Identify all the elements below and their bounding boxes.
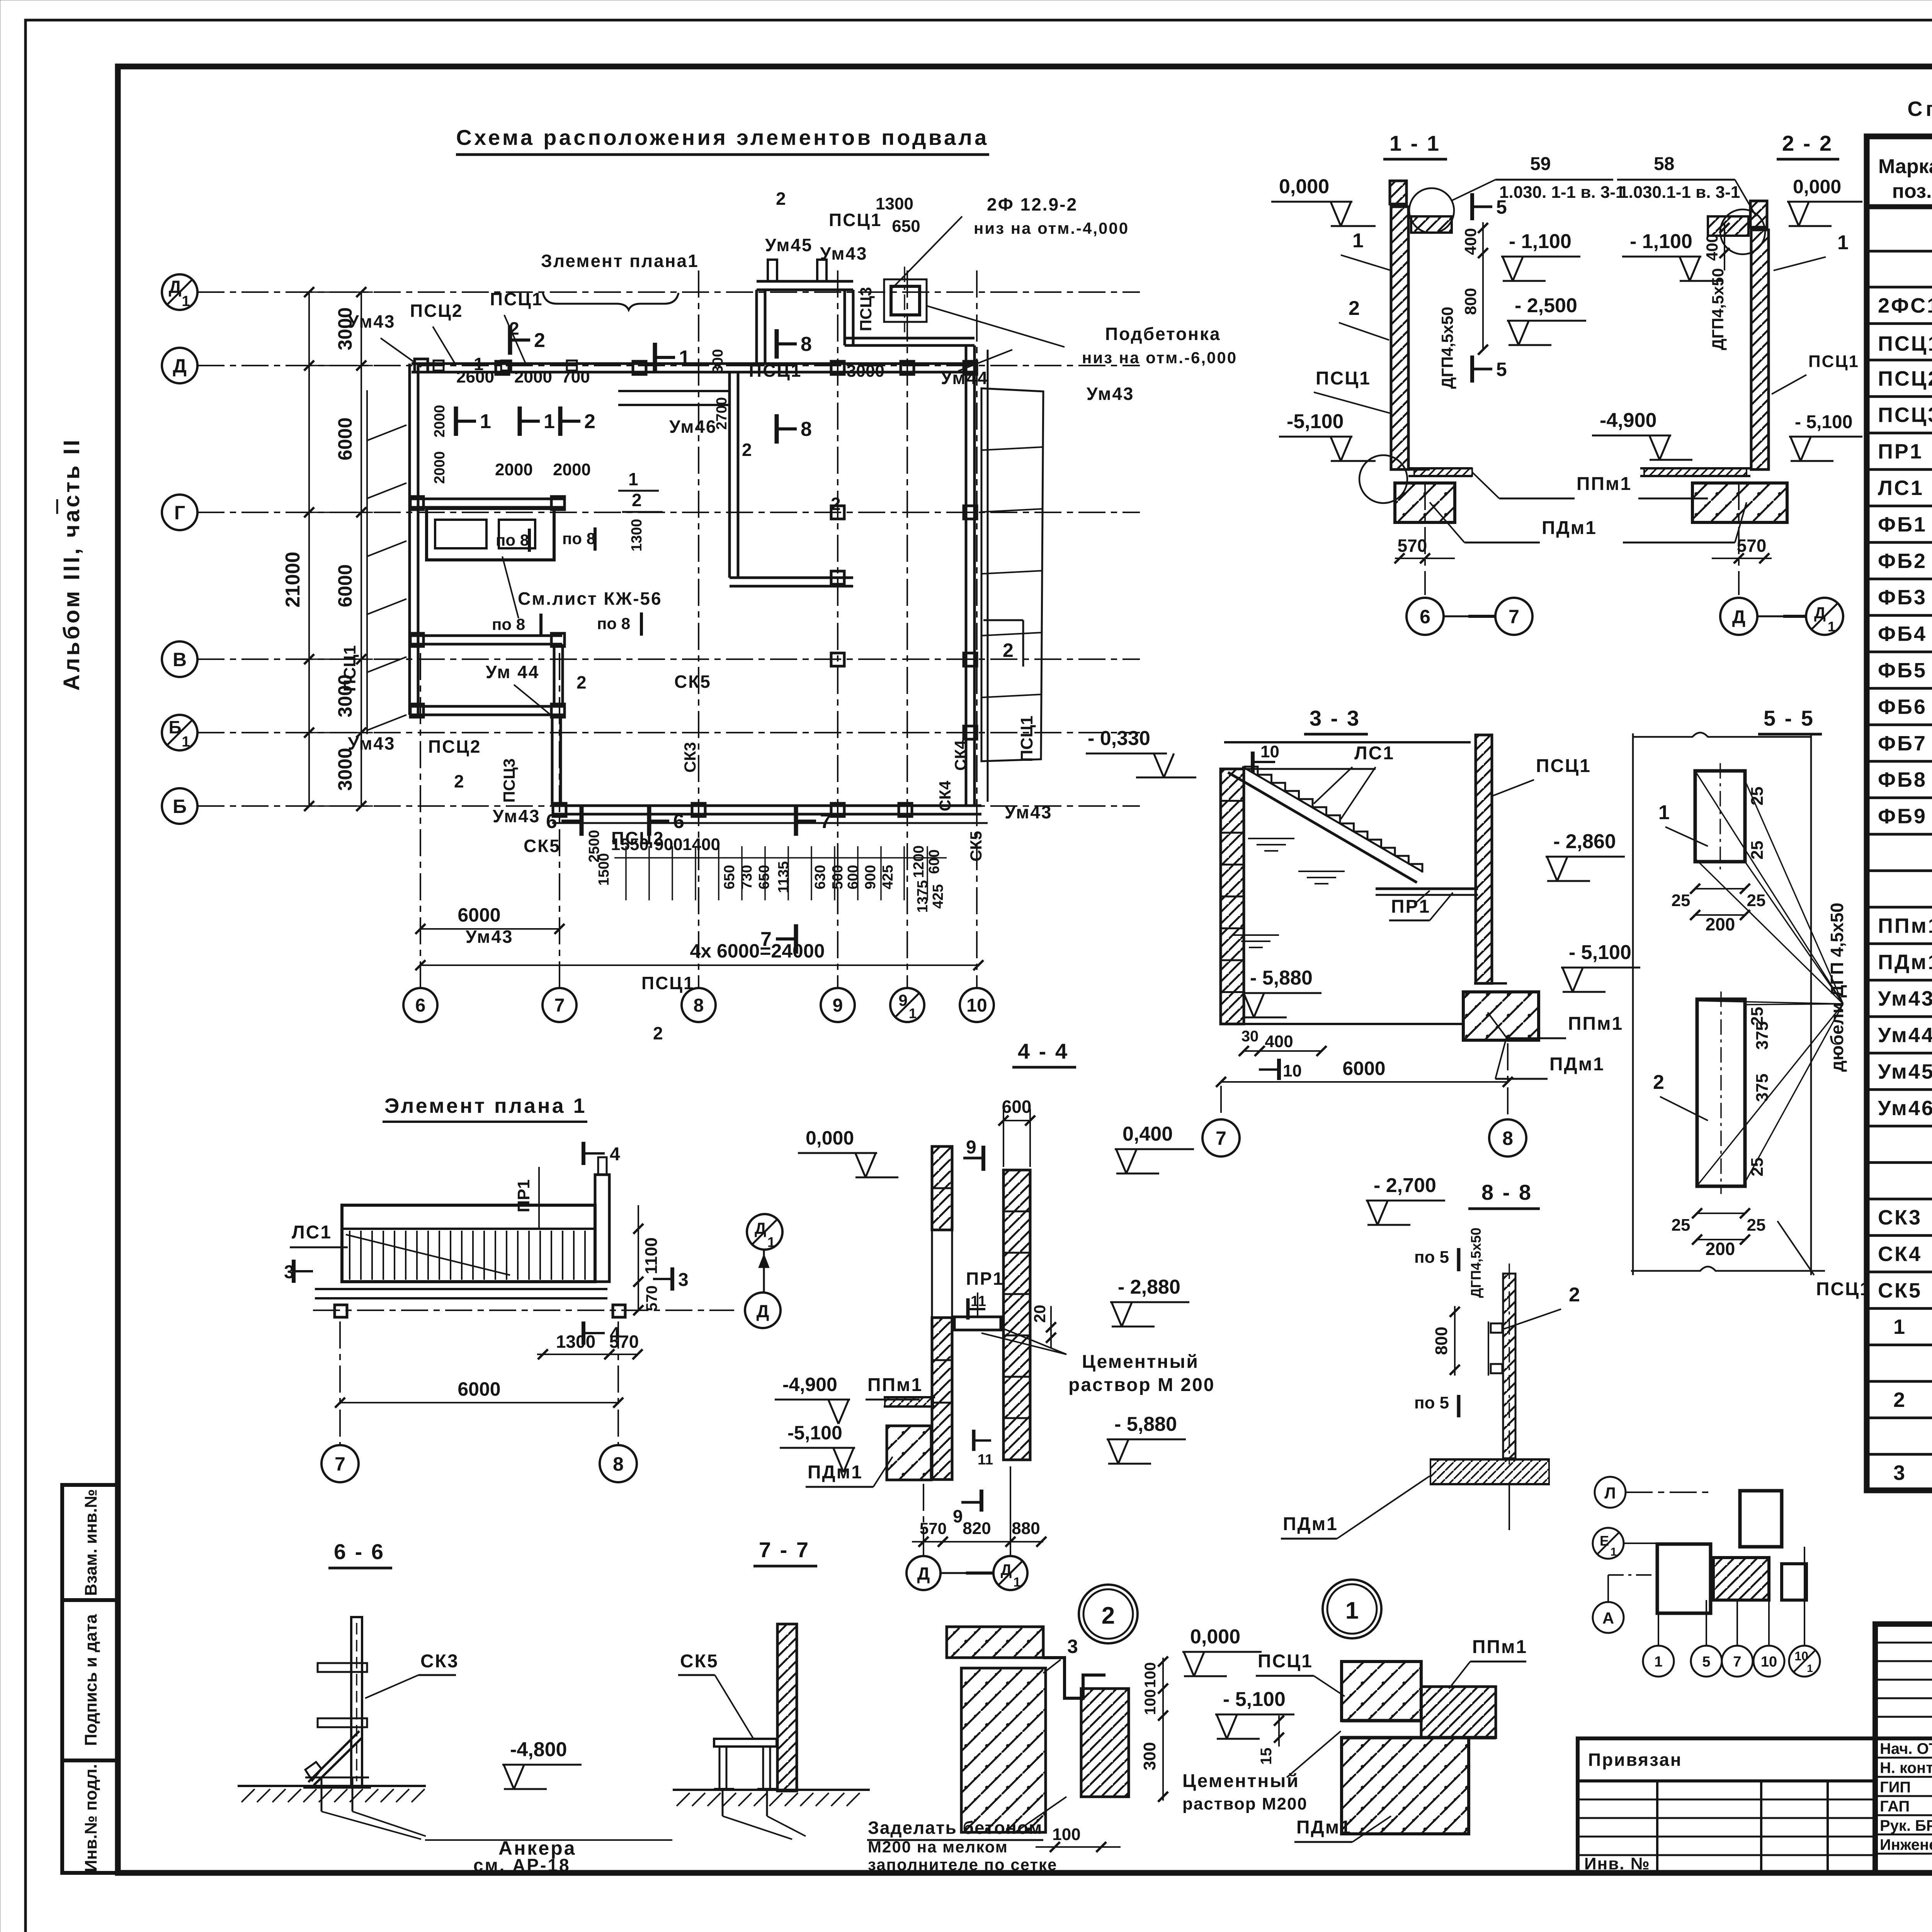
svg-text:ПСЦ1: ПСЦ1 [340, 645, 359, 692]
svg-text:425: 425 [930, 884, 946, 908]
svg-text:-4,900: -4,900 [782, 1374, 837, 1395]
svg-text:2: 2 [776, 189, 786, 209]
svg-text:375: 375 [1753, 1073, 1772, 1102]
svg-text:СК3: СК3 [681, 742, 699, 772]
dim line bottom cluster [614, 857, 947, 859]
svg-text:Д: Д [1001, 1561, 1012, 1578]
svg-text:200: 200 [1706, 914, 1735, 934]
svg-text:7: 7 [760, 928, 772, 951]
svg-text:- 1,100: - 1,100 [1630, 230, 1692, 253]
svg-text:ФБ3: ФБ3 [1878, 586, 1927, 609]
small wall squares top-left [434, 361, 444, 371]
svg-text:0,000: 0,000 [1279, 175, 1329, 198]
svg-text:ПСЦ1: ПСЦ1 [1878, 332, 1932, 355]
svg-text:7: 7 [335, 1453, 345, 1475]
3-3 right wall [1476, 735, 1492, 983]
key plan leaders [1626, 1492, 1712, 1493]
8-8 bottom slab [1430, 1458, 1550, 1461]
4-4 marks 9 [981, 1146, 985, 1171]
svg-text:ПР1: ПР1 [514, 1179, 533, 1212]
svg-text:600: 600 [1002, 1097, 1032, 1117]
svg-text:600: 600 [926, 849, 942, 874]
svg-text:СК4: СК4 [1878, 1242, 1922, 1265]
svg-text:-4,800: -4,800 [510, 1738, 567, 1761]
svg-text:59: 59 [1530, 154, 1551, 174]
svg-text:6: 6 [546, 810, 557, 833]
svg-text:ПСЦ1: ПСЦ1 [490, 289, 543, 309]
1-1 bottom axis circles [1424, 483, 1426, 595]
svg-text:по 5: по 5 [1414, 1393, 1449, 1412]
svg-text:3: 3 [284, 1262, 294, 1282]
svg-text:ПР1: ПР1 [1878, 440, 1923, 463]
svg-text:1: 1 [1893, 1315, 1905, 1338]
element plana axis circles right [747, 1214, 782, 1250]
svg-text:100: 100 [1052, 1825, 1080, 1844]
svg-text:по 8: по 8 [492, 615, 525, 633]
2-2 foundation [1692, 483, 1787, 522]
svg-text:Д: Д [755, 1219, 766, 1237]
svg-text:ФБ8: ФБ8 [1878, 768, 1927, 791]
svg-text:см. АР-18: см. АР-18 [473, 1855, 571, 1875]
svg-text:3000: 3000 [334, 748, 356, 791]
svg-text:1300: 1300 [556, 1332, 595, 1352]
svg-text:1375: 1375 [915, 880, 931, 913]
svg-text:1.030. 1-1 в. 3-1: 1.030. 1-1 в. 3-1 [1499, 183, 1625, 202]
svg-text:ПР1: ПР1 [966, 1269, 1004, 1289]
svg-text:Б: Б [168, 717, 181, 737]
top wall inner band [618, 390, 730, 392]
svg-text:Ум 44: Ум 44 [486, 662, 539, 682]
svg-text:425: 425 [880, 865, 896, 889]
svg-text:1.030.1-1 в. 3-1: 1.030.1-1 в. 3-1 [1619, 183, 1740, 202]
svg-text:8: 8 [801, 418, 812, 440]
svg-text:Подбетонка: Подбетонка [1105, 324, 1221, 344]
svg-text:ФБ4: ФБ4 [1878, 622, 1927, 646]
svg-text:6000: 6000 [457, 1378, 500, 1400]
svg-text:1: 1 [1611, 1546, 1617, 1558]
svg-text:М200 на мелком: М200 на мелком [868, 1838, 1008, 1856]
svg-text:ПСЦ3: ПСЦ3 [1878, 403, 1932, 427]
svg-text:2: 2 [1653, 1071, 1664, 1094]
svg-text:10: 10 [1283, 1061, 1302, 1080]
4-4 right wall strip [1003, 1170, 1030, 1460]
svg-text:1135: 1135 [776, 861, 792, 893]
svg-text:11: 11 [971, 1293, 986, 1310]
svg-text:Ум43: Ум43 [466, 927, 514, 947]
svg-text:2000: 2000 [432, 405, 448, 438]
bottom dimension lines [420, 928, 560, 930]
svg-text:6: 6 [415, 995, 426, 1016]
plan axis circles left [162, 274, 197, 310]
svg-text:Нач. ОТП: Нач. ОТП [1880, 1740, 1932, 1757]
svg-text:Инв.№ подл.: Инв.№ подл. [82, 1764, 100, 1872]
3-3 water marks [1248, 838, 1294, 839]
svg-text:ДГП4,5х50: ДГП4,5х50 [1438, 307, 1456, 389]
top-left leaders [381, 338, 421, 367]
svg-text:10: 10 [966, 995, 987, 1016]
svg-text:ГАП: ГАП [1880, 1798, 1910, 1815]
svg-text:ФБ2: ФБ2 [1878, 549, 1927, 573]
svg-text:880: 880 [1012, 1519, 1040, 1538]
svg-text:3: 3 [1893, 1461, 1905, 1485]
plan vertical axis lines [420, 653, 421, 988]
6-6 brackets [318, 1663, 367, 1672]
svg-text:2: 2 [534, 329, 545, 352]
svg-text:Цементный: Цементный [1182, 1771, 1299, 1791]
svg-text:1: 1 [679, 347, 690, 369]
svg-text:300: 300 [1140, 1742, 1159, 1770]
detail 1 lower block [1342, 1738, 1469, 1834]
4-4 floor slab left [884, 1396, 935, 1398]
svg-text:ФБ7: ФБ7 [1878, 732, 1927, 755]
svg-text:ДГП4,5х50: ДГП4,5х50 [1468, 1228, 1484, 1298]
svg-text:1: 1 [767, 1234, 775, 1250]
svg-text:30: 30 [1242, 1028, 1259, 1045]
svg-text:2: 2 [653, 1023, 663, 1043]
detail 2 circle [1079, 1585, 1138, 1643]
svg-text:ПР1: ПР1 [1391, 896, 1430, 917]
svg-text:6: 6 [1420, 606, 1430, 628]
element plana circles [339, 1321, 341, 1445]
svg-text:2ФС13: 2ФС13 [1878, 294, 1932, 317]
svg-text:7: 7 [1733, 1654, 1741, 1670]
2-2 floor slab [1640, 467, 1750, 469]
svg-text:- 1,100: - 1,100 [1509, 230, 1571, 253]
svg-text:ПСЦ1: ПСЦ1 [1816, 1279, 1871, 1299]
svg-text:570: 570 [1737, 536, 1767, 556]
svg-text:2: 2 [584, 410, 595, 433]
spec table grid [1867, 136, 1932, 1490]
svg-text:ГИП: ГИП [1880, 1779, 1911, 1796]
svg-text:1: 1 [1658, 801, 1670, 824]
svg-text:8: 8 [1502, 1128, 1513, 1149]
8-8 wall [1503, 1274, 1515, 1458]
svg-text:Ум43: Ум43 [1087, 384, 1134, 404]
svg-text:11: 11 [978, 1452, 993, 1468]
detail 2 upper band [947, 1627, 1043, 1658]
svg-text:2: 2 [1003, 639, 1014, 661]
svg-text:3 - 3: 3 - 3 [1310, 706, 1361, 730]
svg-text:Заделать бетоном: Заделать бетоном [868, 1818, 1043, 1838]
svg-text:2000: 2000 [432, 451, 448, 484]
svg-text:по 8: по 8 [597, 614, 630, 633]
svg-text:1: 1 [1837, 231, 1849, 254]
key plan bottom circles [1643, 1646, 1674, 1677]
svg-text:1: 1 [182, 293, 190, 310]
svg-text:ФБ9: ФБ9 [1878, 805, 1927, 828]
svg-text:ПСЦ3: ПСЦ3 [857, 287, 875, 332]
svg-text:6000: 6000 [334, 417, 356, 460]
svg-text:800: 800 [1461, 288, 1480, 315]
svg-text:7: 7 [1509, 606, 1519, 628]
1-1 section mark 5 [1470, 193, 1474, 220]
5-5 lower panel [1697, 999, 1745, 1186]
svg-text:ПСЦ1: ПСЦ1 [1017, 716, 1036, 762]
svg-text:Е: Е [1600, 1533, 1609, 1549]
svg-text:поз.: поз. [1892, 180, 1932, 202]
svg-text:См.лист КЖ-56: См.лист КЖ-56 [518, 588, 662, 609]
svg-text:6: 6 [673, 810, 684, 833]
svg-text:10: 10 [1794, 1649, 1808, 1663]
svg-text:СК3: СК3 [1878, 1206, 1922, 1229]
svg-text:2700: 2700 [714, 397, 730, 430]
5-5 side lines [1632, 733, 1634, 1275]
svg-text:Ум45: Ум45 [765, 235, 813, 255]
leader fan left side (ПСЦ1) [366, 390, 368, 734]
svg-text:900: 900 [654, 835, 682, 854]
column squares [415, 359, 428, 372]
element plana right strip [595, 1175, 609, 1282]
svg-text:СК5: СК5 [680, 1651, 719, 1672]
svg-text:2000: 2000 [495, 460, 533, 479]
svg-text:Г: Г [174, 502, 185, 524]
4-4 dim 600 [1003, 1120, 1030, 1121]
3-3 top line [1224, 741, 1471, 743]
svg-text:1: 1 [1345, 1597, 1359, 1624]
svg-text:- 5,100: - 5,100 [1569, 941, 1631, 964]
svg-text:Ум45: Ум45 [1878, 1060, 1932, 1083]
svg-text:2Ф 12.9-2: 2Ф 12.9-2 [987, 194, 1078, 214]
element plana 1 body [342, 1205, 595, 1282]
svg-text:0,400: 0,400 [1122, 1123, 1173, 1145]
4-4 marks 11 [966, 1298, 970, 1320]
svg-text:7: 7 [1216, 1128, 1226, 1149]
6-6 post [351, 1617, 362, 1787]
1-1 dim 570 [1395, 558, 1455, 559]
svg-text:ПСЦ1: ПСЦ1 [1536, 756, 1591, 776]
1-1 detail circle [1409, 188, 1454, 233]
svg-text:ПДм1: ПДм1 [1296, 1817, 1352, 1838]
svg-text:-5,100: -5,100 [1287, 410, 1344, 433]
svg-text:ПСЦ1: ПСЦ1 [1258, 1651, 1313, 1672]
svg-text:ПСЦ2: ПСЦ2 [428, 736, 481, 757]
svg-text:25: 25 [1748, 1158, 1767, 1177]
svg-text:10: 10 [1761, 1654, 1777, 1670]
svg-text:2: 2 [742, 440, 752, 460]
svg-text:4: 4 [610, 1324, 620, 1344]
svg-text:Ум43: Ум43 [1005, 802, 1053, 822]
svg-text:Взам. инв.№: Взам. инв.№ [82, 1489, 100, 1596]
panel strip right (ПСЦ1 elevation) [981, 388, 1043, 761]
svg-text:100: 100 [1142, 1689, 1159, 1715]
svg-text:2 - 2: 2 - 2 [1782, 131, 1833, 155]
svg-text:25: 25 [1748, 1007, 1767, 1026]
svg-text:ПДм1: ПДм1 [1549, 1054, 1605, 1075]
svg-text:- 2,500: - 2,500 [1515, 294, 1577, 317]
svg-text:9: 9 [966, 1137, 976, 1158]
svg-text:Альбом III, часть II: Альбом III, часть II [59, 437, 84, 690]
7-7 anchors leaders [723, 1816, 792, 1839]
svg-text:2: 2 [1349, 297, 1360, 320]
plan horizontal axis lines [197, 291, 1140, 293]
plan walls [412, 362, 975, 365]
svg-text:200: 200 [1706, 1239, 1735, 1259]
svg-text:25: 25 [1672, 1216, 1690, 1235]
svg-text:Ум46: Ум46 [1878, 1097, 1932, 1120]
svg-text:6000: 6000 [1342, 1058, 1385, 1079]
svg-text:9: 9 [953, 1506, 963, 1526]
svg-text:2000: 2000 [514, 367, 552, 386]
2-2 bottom circles [1738, 483, 1740, 595]
svg-text:0,000: 0,000 [1190, 1626, 1240, 1648]
svg-text:- 2,700: - 2,700 [1374, 1174, 1436, 1197]
svg-text:Д: Д [169, 277, 182, 297]
8-8 bracket [1491, 1323, 1502, 1333]
svg-text:5: 5 [1496, 359, 1507, 380]
svg-text:по 8: по 8 [496, 531, 529, 549]
svg-text:низ на отм.-4,000: низ на отм.-4,000 [974, 219, 1129, 237]
7-7 stand [714, 1739, 777, 1747]
4-4 ПР1 lintel [954, 1317, 1001, 1330]
svg-text:Н. контр.: Н. контр. [1880, 1760, 1932, 1777]
svg-text:Ум46: Ум46 [669, 417, 717, 437]
svg-text:- 5,880: - 5,880 [1114, 1413, 1177, 1435]
svg-text:Подпись и дата: Подпись и дата [82, 1614, 100, 1746]
svg-text:ПСЦ3: ПСЦ3 [500, 759, 518, 803]
key plan rects [1740, 1491, 1782, 1547]
3-3 stair slope [1228, 772, 1417, 883]
left dimension chains [308, 292, 310, 806]
svg-text:СК3: СК3 [420, 1651, 459, 1672]
svg-text:А: А [1602, 1609, 1614, 1627]
svg-text:1400: 1400 [682, 835, 720, 854]
svg-text:Д: Д [757, 1301, 769, 1321]
title block frame [1875, 1624, 1932, 1873]
svg-text:низ на отм.-6,000: низ на отм.-6,000 [1082, 349, 1237, 367]
element plana base [315, 1288, 607, 1290]
svg-text:21000: 21000 [282, 552, 304, 608]
svg-text:400: 400 [1703, 234, 1721, 261]
svg-text:1550: 1550 [611, 835, 649, 854]
svg-text:650: 650 [892, 217, 920, 236]
svg-text:2000: 2000 [553, 460, 591, 479]
svg-text:1500: 1500 [596, 853, 612, 886]
svg-text:5 - 5: 5 - 5 [1764, 706, 1815, 730]
svg-text:раствор М200: раствор М200 [1182, 1794, 1308, 1813]
svg-text:4x 6000=24000: 4x 6000=24000 [690, 940, 825, 962]
svg-text:400: 400 [1461, 228, 1480, 255]
svg-text:900: 900 [862, 865, 879, 889]
svg-text:1 - 1: 1 - 1 [1389, 131, 1440, 155]
svg-text:1300: 1300 [876, 194, 913, 213]
element plana dims [537, 1354, 638, 1355]
svg-text:- 5,100: - 5,100 [1223, 1688, 1286, 1711]
svg-text:СК5: СК5 [1878, 1279, 1922, 1302]
svg-text:раствор М 200: раствор М 200 [1068, 1375, 1215, 1395]
svg-text:Спецификация к схеме распол: Спецификация к схеме расположения элемен… [1907, 97, 1932, 121]
elem plana bracket [543, 293, 679, 310]
detail 2 big block [961, 1668, 1046, 1832]
svg-text:3000: 3000 [847, 362, 884, 381]
svg-text:1200: 1200 [911, 845, 927, 878]
svg-text:Схема расположения элементо: Схема расположения элементов подвала [456, 125, 989, 150]
svg-text:1: 1 [1807, 1662, 1813, 1674]
svg-text:ПСЦ1: ПСЦ1 [749, 361, 802, 381]
svg-text:820: 820 [963, 1519, 991, 1538]
svg-text:6000: 6000 [457, 904, 500, 926]
svg-text:2: 2 [1569, 1284, 1580, 1306]
svg-text:СК5: СК5 [524, 836, 561, 856]
svg-text:2: 2 [1893, 1388, 1905, 1412]
1-1 foundation [1395, 483, 1455, 522]
svg-text:25: 25 [1747, 1216, 1766, 1235]
svg-text:2: 2 [831, 494, 841, 514]
detail 1 circle [1323, 1580, 1381, 1638]
svg-text:3: 3 [1067, 1636, 1078, 1657]
svg-text:Злемент плана1: Злемент плана1 [541, 251, 699, 271]
svg-text:2: 2 [1102, 1602, 1115, 1629]
svg-text:700: 700 [561, 367, 590, 386]
svg-text:Д: Д [917, 1563, 930, 1583]
svg-text:7: 7 [820, 810, 831, 833]
6-6 brace [308, 1731, 359, 1782]
svg-text:1300: 1300 [629, 519, 645, 552]
5-5 upper panel [1695, 771, 1745, 862]
interior walls [728, 372, 731, 578]
svg-text:7: 7 [554, 995, 565, 1016]
svg-text:ПСЦ1: ПСЦ1 [1316, 368, 1371, 389]
svg-text:ППм1: ППм1 [1577, 474, 1632, 494]
svg-text:Ум44: Ум44 [1878, 1024, 1932, 1047]
svg-text:7 - 7: 7 - 7 [759, 1537, 810, 1562]
svg-text:Ум44: Ум44 [941, 368, 989, 388]
svg-text:Д: Д [1814, 604, 1826, 622]
svg-text:ЛС1: ЛС1 [292, 1222, 332, 1243]
svg-text:СК5: СК5 [967, 831, 985, 861]
svg-text:заполнителе по сетке: заполнителе по сетке [868, 1855, 1057, 1874]
svg-text:ДГП4,5х50: ДГП4,5х50 [1709, 268, 1727, 350]
svg-text:800: 800 [1432, 1327, 1451, 1355]
svg-text:1100: 1100 [642, 1237, 661, 1274]
svg-text:1: 1 [628, 469, 638, 489]
detail 2 dims [1162, 1658, 1164, 1801]
svg-text:ФБ5: ФБ5 [1878, 659, 1927, 682]
svg-text:Ум43: Ум43 [820, 243, 868, 264]
svg-text:ФБ6: ФБ6 [1878, 695, 1927, 718]
svg-text:по 5: по 5 [1414, 1248, 1449, 1267]
svg-text:-5,100: -5,100 [787, 1422, 842, 1444]
svg-text:ФБ1: ФБ1 [1878, 513, 1927, 536]
key plan circles [1595, 1477, 1626, 1508]
svg-text:- 0,330: - 0,330 [1088, 727, 1150, 750]
3-3 bottom circles [1220, 1086, 1222, 1119]
svg-text:1: 1 [1352, 230, 1364, 252]
svg-text:Ум43: Ум43 [493, 806, 541, 826]
svg-text:4: 4 [610, 1144, 620, 1165]
svg-text:ППм1: ППм1 [1878, 914, 1932, 937]
svg-text:Элемент плана 1: Элемент плана 1 [384, 1094, 587, 1117]
svg-text:3: 3 [678, 1270, 689, 1290]
svg-text:Привязан: Привязан [1588, 1750, 1682, 1770]
svg-text:25: 25 [1672, 891, 1690, 910]
section marks on plan [508, 325, 512, 355]
svg-text:0,000: 0,000 [1793, 176, 1841, 197]
svg-text:ПСЦ1: ПСЦ1 [641, 973, 694, 993]
svg-text:20: 20 [1031, 1305, 1049, 1323]
svg-text:ПДм1: ПДм1 [1283, 1514, 1338, 1534]
svg-text:8: 8 [694, 995, 704, 1016]
detail 1 right band [1421, 1687, 1496, 1738]
svg-text:8: 8 [613, 1453, 624, 1475]
detail 2 right block [1081, 1689, 1129, 1797]
8-8 dim 800 [1454, 1306, 1456, 1376]
svg-text:ППм1: ППм1 [1472, 1637, 1527, 1657]
svg-text:Инженер: Инженер [1880, 1837, 1932, 1854]
svg-text:630: 630 [812, 865, 828, 889]
привязан table [1578, 1738, 1875, 1873]
svg-text:2: 2 [454, 771, 464, 791]
2-2 dim 570 [1712, 558, 1772, 559]
